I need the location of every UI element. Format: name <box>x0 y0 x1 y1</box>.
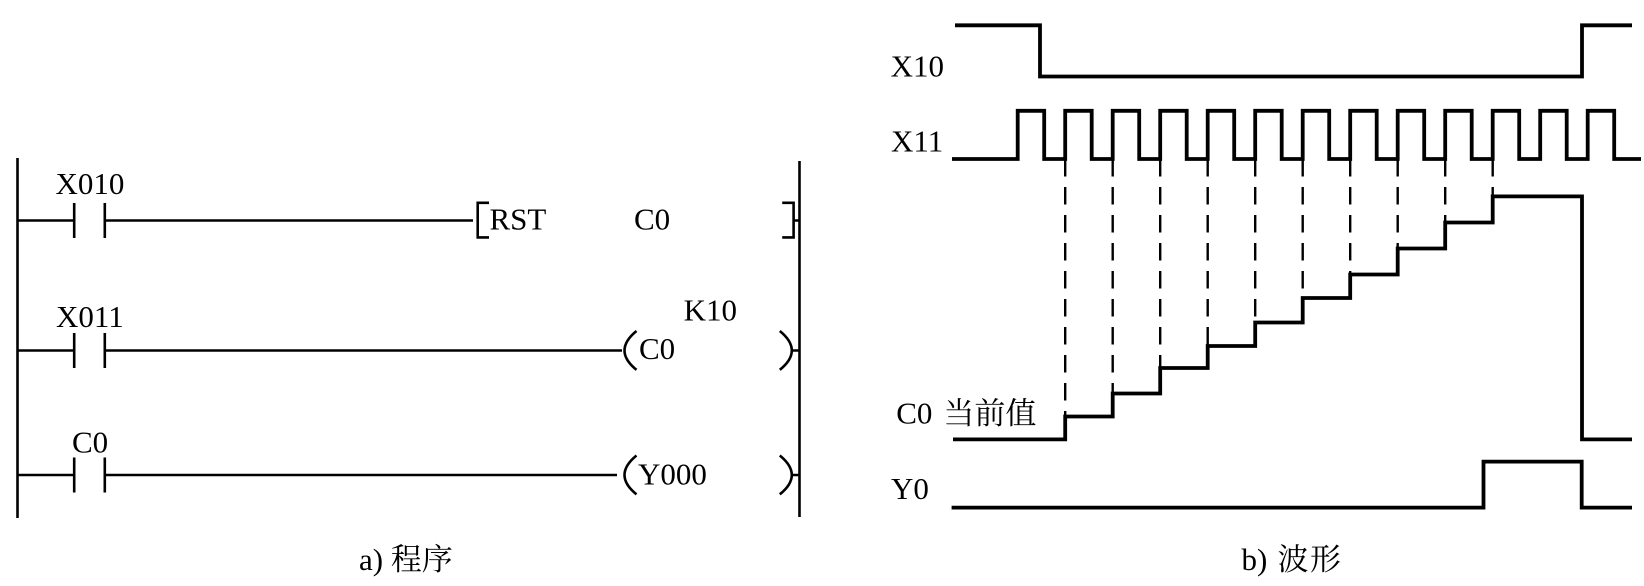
svg-text:X010: X010 <box>56 166 125 201</box>
svg-text:X11: X11 <box>891 124 943 159</box>
coil Y000 <box>625 456 637 495</box>
dashed count line 2 <box>1111 159 1113 394</box>
wire rung 2 <box>105 349 622 352</box>
waveform X11 <box>952 111 1641 159</box>
contact X011 <box>18 333 105 368</box>
wire rung 1 <box>105 219 473 222</box>
svg-text:C0: C0 <box>896 396 932 431</box>
svg-text:Y000: Y000 <box>638 457 707 492</box>
dashed count line 6 <box>1301 159 1303 298</box>
dashed count line 8 <box>1396 159 1398 249</box>
svg-text:X10: X10 <box>891 49 944 84</box>
svg-text:C0: C0 <box>634 201 670 236</box>
RST instruction right bracket <box>782 203 799 238</box>
dashed count line 4 <box>1206 159 1208 346</box>
dashed count line 9 <box>1444 159 1446 223</box>
contact X010 <box>18 203 105 238</box>
left power rail <box>16 158 19 518</box>
svg-text:RST: RST <box>490 201 547 236</box>
svg-text:K10: K10 <box>684 293 737 328</box>
waveform Y0 <box>952 462 1632 508</box>
svg-text:C0: C0 <box>72 424 108 459</box>
svg-text:C0: C0 <box>639 331 675 366</box>
right power rail <box>798 161 801 517</box>
dashed count line 7 <box>1349 159 1351 275</box>
svg-text:Y0: Y0 <box>891 471 929 506</box>
dashed count line 5 <box>1254 159 1256 323</box>
RST instruction left bracket <box>478 203 489 238</box>
svg-text:a): a) <box>359 542 383 577</box>
wire rung 3 <box>105 474 617 477</box>
waveform X10 <box>955 25 1632 76</box>
contact C0 <box>18 458 105 493</box>
waveform C0 current value staircase <box>953 196 1632 439</box>
svg-text:X011: X011 <box>56 299 124 334</box>
coil C0 <box>625 331 637 370</box>
dashed count line 1 <box>1064 159 1066 417</box>
svg-text:b): b) <box>1242 542 1268 577</box>
dashed count line 10 <box>1491 159 1493 196</box>
dashed count line 3 <box>1159 159 1161 368</box>
